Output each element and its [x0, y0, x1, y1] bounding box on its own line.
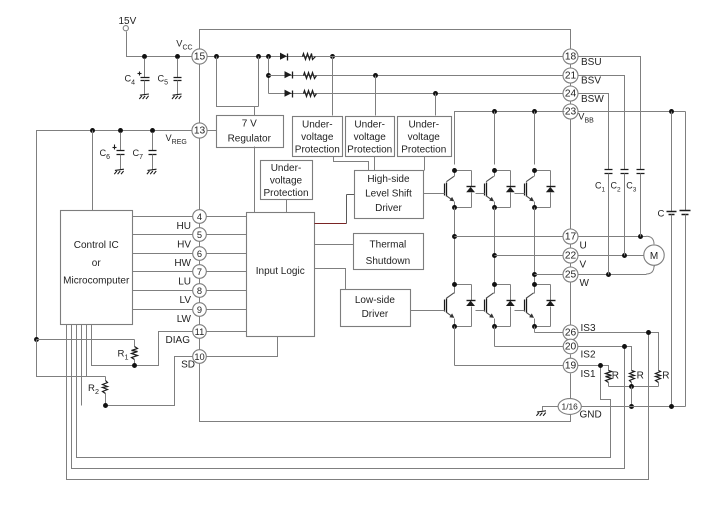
capacitor C2: [611, 170, 629, 256]
label DIAG: [166, 335, 191, 346]
wire UVP2 output to high-side driver: [374, 157, 376, 171]
wire UVP1 feed: [332, 57, 334, 116]
wire U phase to motor: [578, 236, 655, 245]
junction IS2 feedback tap: [622, 344, 627, 349]
label BSW: [581, 94, 604, 105]
wire sense common to ground line: [631, 387, 633, 407]
svg-text:20: 20: [565, 342, 577, 353]
svg-text:23: 23: [565, 107, 577, 118]
svg-text:C3: C3: [626, 181, 637, 194]
svg-text:High-side: High-side: [367, 174, 410, 185]
diode D1 bootstrap BSU: [280, 53, 288, 61]
svg-text:15: 15: [194, 52, 206, 63]
wire high-side gate lead 2: [476, 193, 485, 195]
pin 8 LV: [193, 284, 207, 298]
svg-text:17: 17: [565, 232, 577, 243]
wire BSU to C3: [578, 57, 641, 170]
wire VREG to R1: [37, 339, 135, 341]
svg-text:or: or: [92, 258, 102, 269]
junction IS3 feedback tap: [646, 330, 651, 335]
svg-text:IS1: IS1: [581, 369, 596, 380]
junction row2 branch: [266, 73, 271, 78]
svg-text:BSV: BSV: [581, 75, 601, 86]
wire VCC rail inside: [207, 56, 565, 58]
wire IS1 to sense resistor: [578, 366, 609, 367]
junction W bootstrap C1 tap: [606, 272, 611, 277]
svg-text:LU: LU: [178, 277, 191, 288]
svg-text:R1: R1: [118, 348, 129, 361]
wire UVP3 feed: [435, 94, 437, 116]
wire IS3 to sense resistor: [578, 333, 659, 367]
transistor Q5 low-side IGBT with diode: [485, 282, 516, 329]
svg-text:IS2: IS2: [581, 350, 596, 361]
wire control IC SD pullline: [81, 325, 83, 406]
svg-text:9: 9: [197, 305, 202, 315]
pin 1/16 GND: [558, 399, 581, 415]
svg-text:26: 26: [565, 328, 577, 339]
junction sense common: [629, 384, 634, 389]
block under-voltage protection UVP1: [293, 117, 343, 157]
label HU: [177, 221, 191, 232]
transistor Q4 low-side IGBT with diode: [445, 282, 476, 329]
label VREG: [166, 133, 187, 146]
svg-text:C: C: [658, 209, 665, 220]
capacitor C6: [100, 133, 125, 170]
block Input Logic: [247, 213, 315, 337]
wire IS2 to pin 20: [495, 346, 565, 348]
wire low-side gate lead 2: [476, 310, 485, 312]
svg-text:U: U: [580, 240, 587, 251]
wire pin 4 to input logic: [207, 216, 247, 218]
wire GND to ground symbol: [543, 407, 559, 411]
junction U phase col: [452, 234, 457, 239]
junction bulk cap return: [669, 404, 674, 409]
wire SD to input logic: [207, 337, 278, 357]
junction UVP1 tap: [330, 54, 335, 59]
wire VREG to control IC: [92, 131, 94, 211]
wire IS2 column: [494, 327, 496, 347]
wire low-side gate lead 1: [411, 310, 445, 312]
svg-text:8: 8: [197, 286, 202, 296]
junction 7V-regulator tap: [214, 54, 219, 59]
label V: [580, 259, 587, 270]
svg-text:R: R: [637, 370, 644, 381]
wire high-side gate lead 1: [424, 193, 445, 195]
wire row3 to pin 24: [317, 93, 565, 95]
svg-text:C6: C6: [100, 148, 111, 161]
block Control IC or Microcomputer: [61, 211, 133, 325]
pin 11 DIAG: [193, 325, 207, 339]
wire UVP4 output to input logic: [286, 200, 288, 213]
block under-voltage protection UVP4: [261, 161, 313, 200]
svg-text:Microcomputer: Microcomputer: [63, 276, 130, 287]
wire SD left branch: [106, 357, 193, 406]
IC boundary left edge pin4-pin10 segments: [199, 223, 201, 350]
label SD: [181, 360, 195, 371]
pin 21 BSV: [563, 68, 578, 83]
pin 6 HW: [193, 247, 207, 261]
svg-text:Control IC: Control IC: [74, 240, 119, 251]
ground C6: [114, 169, 124, 174]
svg-text:4: 4: [197, 212, 202, 222]
IC boundary bottom-left edge: [200, 363, 571, 422]
resistor bootstrap BSV: [304, 73, 317, 79]
junction UVP3 tap: [433, 91, 438, 96]
wire row2 BSV: [269, 75, 317, 77]
wire phase column V: [494, 208, 496, 285]
svg-text:1/16: 1/16: [562, 402, 579, 412]
svg-text:Regulator: Regulator: [228, 133, 272, 144]
svg-text:HV: HV: [177, 239, 191, 250]
wire input logic to low-side driver: [315, 269, 346, 290]
capacitor C1: [595, 170, 613, 275]
junction U bootstrap C3 tap: [638, 234, 643, 239]
ground C7: [147, 169, 157, 174]
IC boundary left edge pin15-pin13: [199, 65, 201, 124]
svg-text:voltage: voltage: [354, 132, 387, 143]
resistor R sense 3: [656, 367, 670, 387]
block under-voltage protection UVP3: [398, 117, 452, 157]
svg-text:VCC: VCC: [176, 38, 192, 51]
pin 20 IS2: [563, 339, 578, 354]
wire VBB internal rail: [455, 112, 565, 165]
block Thermal Shutdown: [354, 234, 424, 270]
pin 4 HU: [193, 210, 207, 224]
svg-text:Low-side: Low-side: [355, 295, 395, 306]
junction V bootstrap C2 tap: [622, 253, 627, 258]
pin 13 VREG: [192, 123, 207, 138]
svg-text:Protection: Protection: [263, 188, 308, 199]
svg-text:Level Shift: Level Shift: [365, 189, 412, 200]
wire VBB external: [578, 111, 686, 113]
svg-text:Protection: Protection: [295, 144, 340, 155]
wire IS3 to pin 26: [535, 332, 565, 334]
svg-text:R: R: [662, 370, 669, 381]
label IS2: [581, 350, 596, 361]
wire UVP1 output to high-side driver: [334, 157, 369, 171]
svg-text:22: 22: [565, 251, 577, 262]
diode D2 bootstrap BSV: [285, 71, 293, 78]
junction V phase col: [492, 253, 497, 258]
wire control IC to pin 4: [133, 216, 193, 218]
wire input logic to thermal shutdown: [315, 244, 354, 246]
svg-text:10: 10: [194, 352, 204, 362]
svg-text:Under-: Under-: [354, 120, 385, 131]
label VBB: [578, 111, 594, 124]
wire input logic to high-side driver: [315, 195, 355, 224]
transistor Q1 high-side IGBT with diode: [445, 168, 476, 210]
resistor R1: [118, 340, 138, 366]
svg-text:5: 5: [197, 230, 202, 240]
diode D3 bootstrap BSW: [285, 90, 293, 98]
pin 7 LU: [193, 265, 207, 279]
wire VREG to R2: [37, 340, 106, 377]
wire control IC to pin 7: [133, 271, 193, 273]
svg-text:voltage: voltage: [270, 175, 303, 186]
junction R1 bottom: [132, 363, 137, 368]
svg-text:24: 24: [565, 89, 577, 100]
wire pin 6 to input logic: [207, 253, 247, 255]
svg-text:Protection: Protection: [401, 144, 446, 155]
wire W phase to motor: [578, 266, 655, 275]
resistor R sense 2: [630, 367, 644, 387]
wire control IC feedback line 3: [77, 325, 611, 458]
svg-text:C7: C7: [133, 148, 144, 161]
wire high-side gate lead 3: [515, 193, 525, 195]
junction C6 tap: [118, 128, 123, 133]
label LV: [180, 295, 192, 306]
wire bootstrap rows feeder: [268, 57, 270, 94]
wire phase column U: [454, 208, 456, 285]
capacitor C4: [125, 59, 150, 95]
junction control IC supply tap: [90, 128, 95, 133]
junction sense common ground: [629, 404, 634, 409]
svg-text:7: 7: [197, 267, 202, 277]
junction VBB rail col3: [532, 109, 537, 114]
label BSV: [581, 75, 601, 86]
pin 25 W: [563, 267, 578, 282]
svg-text:R: R: [612, 370, 619, 381]
capacitor C bulk: [658, 112, 677, 407]
svg-text:Under-: Under-: [271, 163, 302, 174]
svg-text:C5: C5: [158, 74, 169, 87]
svg-text:M: M: [650, 251, 658, 262]
resistor R sense 1: [606, 366, 620, 387]
label LU: [178, 277, 191, 288]
wire V phase to pin 22: [495, 255, 565, 257]
svg-text:voltage: voltage: [301, 132, 334, 143]
capacitor C7: [133, 133, 157, 170]
svg-text:Input Logic: Input Logic: [256, 266, 305, 277]
pin 26 IS3: [563, 325, 578, 340]
transistor Q3 high-side IGBT with diode: [525, 168, 556, 210]
block Low-side Driver: [341, 290, 411, 327]
svg-text:Driver: Driver: [362, 309, 389, 320]
svg-text:13: 13: [194, 126, 206, 137]
IC boundary left edge pin13-pin4: [199, 139, 201, 210]
pin 24 BSW: [563, 86, 578, 101]
wire pin 7 to input logic: [207, 271, 247, 273]
svg-text:voltage: voltage: [408, 132, 441, 143]
wire control IC feedback line 1: [67, 325, 649, 480]
block under-voltage protection UVP2: [346, 117, 395, 157]
ground C4: [139, 94, 149, 99]
label IS1: [581, 369, 596, 380]
wire IS2 to sense resistor: [578, 347, 632, 367]
resistor bootstrap BSU: [303, 54, 316, 60]
wire row1 to pin 18: [316, 56, 565, 58]
pin 18 BSU: [563, 49, 578, 64]
svg-text:C4: C4: [125, 74, 136, 87]
wire VREG rail: [37, 131, 193, 340]
junction C7 tap: [150, 128, 155, 133]
label BSU: [581, 57, 602, 68]
wire phase column W: [534, 208, 536, 285]
node 15V supply terminal: [119, 16, 137, 31]
svg-text:C2: C2: [611, 181, 622, 194]
label HW: [174, 258, 191, 269]
svg-text:21: 21: [565, 71, 577, 82]
wire W phase to pin 25: [535, 274, 565, 276]
label GND: [580, 410, 602, 421]
svg-text:11: 11: [195, 327, 205, 337]
wire DIAG to input logic: [207, 331, 247, 333]
junction C4 tap: [142, 54, 147, 59]
wire IS3 column: [534, 327, 536, 333]
wire pin 8 to input logic: [207, 290, 247, 292]
wire VBB rail col2 riser: [494, 112, 496, 165]
IC boundary top edge: [200, 30, 571, 50]
wire control IC to pin 6: [133, 253, 193, 255]
label W: [580, 278, 590, 289]
wire sense resistor common: [609, 386, 659, 388]
svg-text:BSW: BSW: [581, 94, 604, 105]
pin 22 V: [563, 248, 578, 263]
svg-text:Under-: Under-: [408, 120, 439, 131]
svg-text:C1: C1: [595, 181, 606, 194]
svg-text:R2: R2: [88, 383, 99, 396]
wire control IC to pin 5: [133, 234, 193, 236]
svg-text:Driver: Driver: [375, 203, 402, 214]
capacitor C bulk second: [680, 112, 691, 407]
capacitor C3: [626, 170, 644, 237]
junction bulk cap C tap: [669, 109, 674, 114]
wire control IC feedback line 2: [72, 325, 625, 469]
wire 7V regulator to pin 13: [207, 130, 217, 132]
svg-text:GND: GND: [580, 410, 602, 421]
svg-text:Shutdown: Shutdown: [366, 256, 410, 267]
pin 10 SD: [193, 350, 207, 364]
svg-text:Thermal: Thermal: [370, 240, 407, 251]
capacitor C5: [158, 59, 182, 95]
svg-text:Under-: Under-: [302, 120, 333, 131]
wire DIAG left branch: [135, 332, 193, 366]
svg-text:LV: LV: [180, 295, 192, 306]
wire V phase to motor: [578, 255, 645, 257]
wire row2 to pin 21: [317, 75, 565, 77]
pin 9 LW: [193, 303, 207, 317]
svg-text:25: 25: [565, 270, 577, 281]
junction UVP2 tap: [373, 73, 378, 78]
svg-text:6: 6: [197, 249, 202, 259]
svg-text:V: V: [580, 259, 587, 270]
label LW: [177, 314, 192, 325]
wire low-side gate lead 3: [515, 310, 525, 312]
svg-text:VREG: VREG: [166, 133, 187, 146]
wire row3 BSW: [269, 93, 317, 95]
wire IS1 column: [454, 327, 456, 366]
motor M: [644, 245, 664, 265]
svg-text:W: W: [580, 278, 590, 289]
label HV: [177, 239, 191, 250]
wire U phase to pin 17: [455, 236, 565, 238]
label IS3: [581, 323, 596, 334]
wire VBB rail col3 riser: [534, 112, 536, 165]
junction bootstrap rows tap: [266, 54, 271, 59]
block 7V Regulator: [217, 116, 284, 148]
junction R1 top VREG tap: [34, 337, 39, 342]
svg-text:Protection: Protection: [347, 144, 392, 155]
junction IS1 feedback tap: [598, 363, 603, 368]
svg-text:19: 19: [565, 361, 577, 372]
wire IS1 to pin 19: [455, 365, 565, 367]
block High-side Level Shift Driver: [355, 171, 424, 219]
ground GND pin: [536, 411, 546, 416]
wire control IC to pin 8: [133, 290, 193, 292]
pin 19 IS1: [563, 358, 578, 373]
wire control IC to pin 9: [133, 309, 193, 311]
svg-text:18: 18: [565, 52, 577, 63]
wire BSW to C1: [578, 94, 609, 170]
wire pin 5 to input logic: [207, 234, 247, 236]
wire 7V regulator to input logic: [254, 147, 256, 213]
wire GND line right: [582, 406, 686, 408]
svg-text:HW: HW: [174, 258, 191, 269]
pin 15 VCC: [192, 49, 207, 64]
pin 23 VBB: [563, 104, 578, 119]
svg-text:HU: HU: [177, 221, 191, 232]
label VCC: [176, 38, 192, 51]
wire BSV to C2: [578, 76, 625, 170]
svg-text:BSU: BSU: [581, 57, 602, 68]
pin 5 HV: [193, 228, 207, 242]
IC boundary right edge segments: [570, 65, 572, 400]
junction regulator second tap: [256, 54, 261, 59]
transistor Q6 low-side IGBT with diode: [525, 282, 556, 329]
junction R2 bottom: [103, 403, 108, 408]
junction VBB rail col2: [492, 109, 497, 114]
wire UVP2 feed: [375, 76, 377, 116]
svg-text:LW: LW: [177, 314, 192, 325]
resistor R2: [88, 377, 108, 406]
resistor bootstrap BSW: [304, 91, 317, 97]
wire VCC to 7V regulator: [217, 57, 259, 117]
svg-text:7 V: 7 V: [242, 118, 257, 129]
wire 15V terminal to VCC rail: [127, 32, 193, 57]
wire control IC DIAG line: [92, 325, 135, 366]
junction W phase col: [532, 272, 537, 277]
svg-text:DIAG: DIAG: [166, 335, 191, 346]
wire UVP3 output to high-side driver: [424, 157, 426, 171]
pin 17 U: [563, 229, 578, 244]
svg-text:SD: SD: [181, 360, 195, 371]
wire pin 9 to input logic: [207, 309, 247, 311]
ground C5: [172, 94, 182, 99]
svg-text:VBB: VBB: [578, 111, 594, 124]
transistor Q2 high-side IGBT with diode: [485, 168, 516, 210]
label U: [580, 240, 587, 251]
junction C5 tap: [175, 54, 180, 59]
wire control IC R2 line: [86, 325, 88, 377]
svg-text:15V: 15V: [119, 16, 137, 27]
